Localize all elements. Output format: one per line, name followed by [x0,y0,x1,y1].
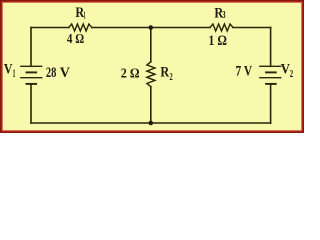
wire right upper (to V2) [270,28,272,67]
wire top-left segment [31,27,69,29]
label V2 [281,62,293,80]
wire bottom segment [31,122,271,124]
wire left upper (to V1) [30,28,32,67]
svg-text:1 Ω: 1 Ω [208,33,227,49]
wire left lower (from V1) [30,84,32,123]
label R2 [160,65,172,83]
svg-text:2: 2 [170,72,173,83]
svg-text:7 V: 7 V [236,64,253,80]
label R1 [75,5,85,21]
node junction dot bottom [149,121,154,126]
label V1 [4,62,16,80]
wire middle upper (to R2) [150,28,152,62]
svg-text:2: 2 [290,69,293,80]
svg-text:28: 28 [46,65,57,81]
svg-text:1: 1 [84,10,86,21]
label R3 [214,5,225,21]
resistor R1 [69,24,92,31]
svg-text:R: R [160,65,169,81]
battery V1 [20,66,42,84]
svg-text:1: 1 [13,68,16,80]
svg-text:2 Ω: 2 Ω [121,66,140,81]
wire middle lower (from R2) [150,87,152,123]
node junction dot top [149,25,154,30]
wire top-right segment [233,27,271,29]
resistor R2 [147,62,155,87]
wire right lower (from V2) [270,84,272,123]
svg-text:V: V [60,65,71,81]
svg-text:4 Ω: 4 Ω [67,31,84,46]
battery V2 [259,66,281,84]
wire top-middle segment [92,27,210,29]
resistor R3 [210,24,233,31]
svg-text:3: 3 [222,10,226,21]
